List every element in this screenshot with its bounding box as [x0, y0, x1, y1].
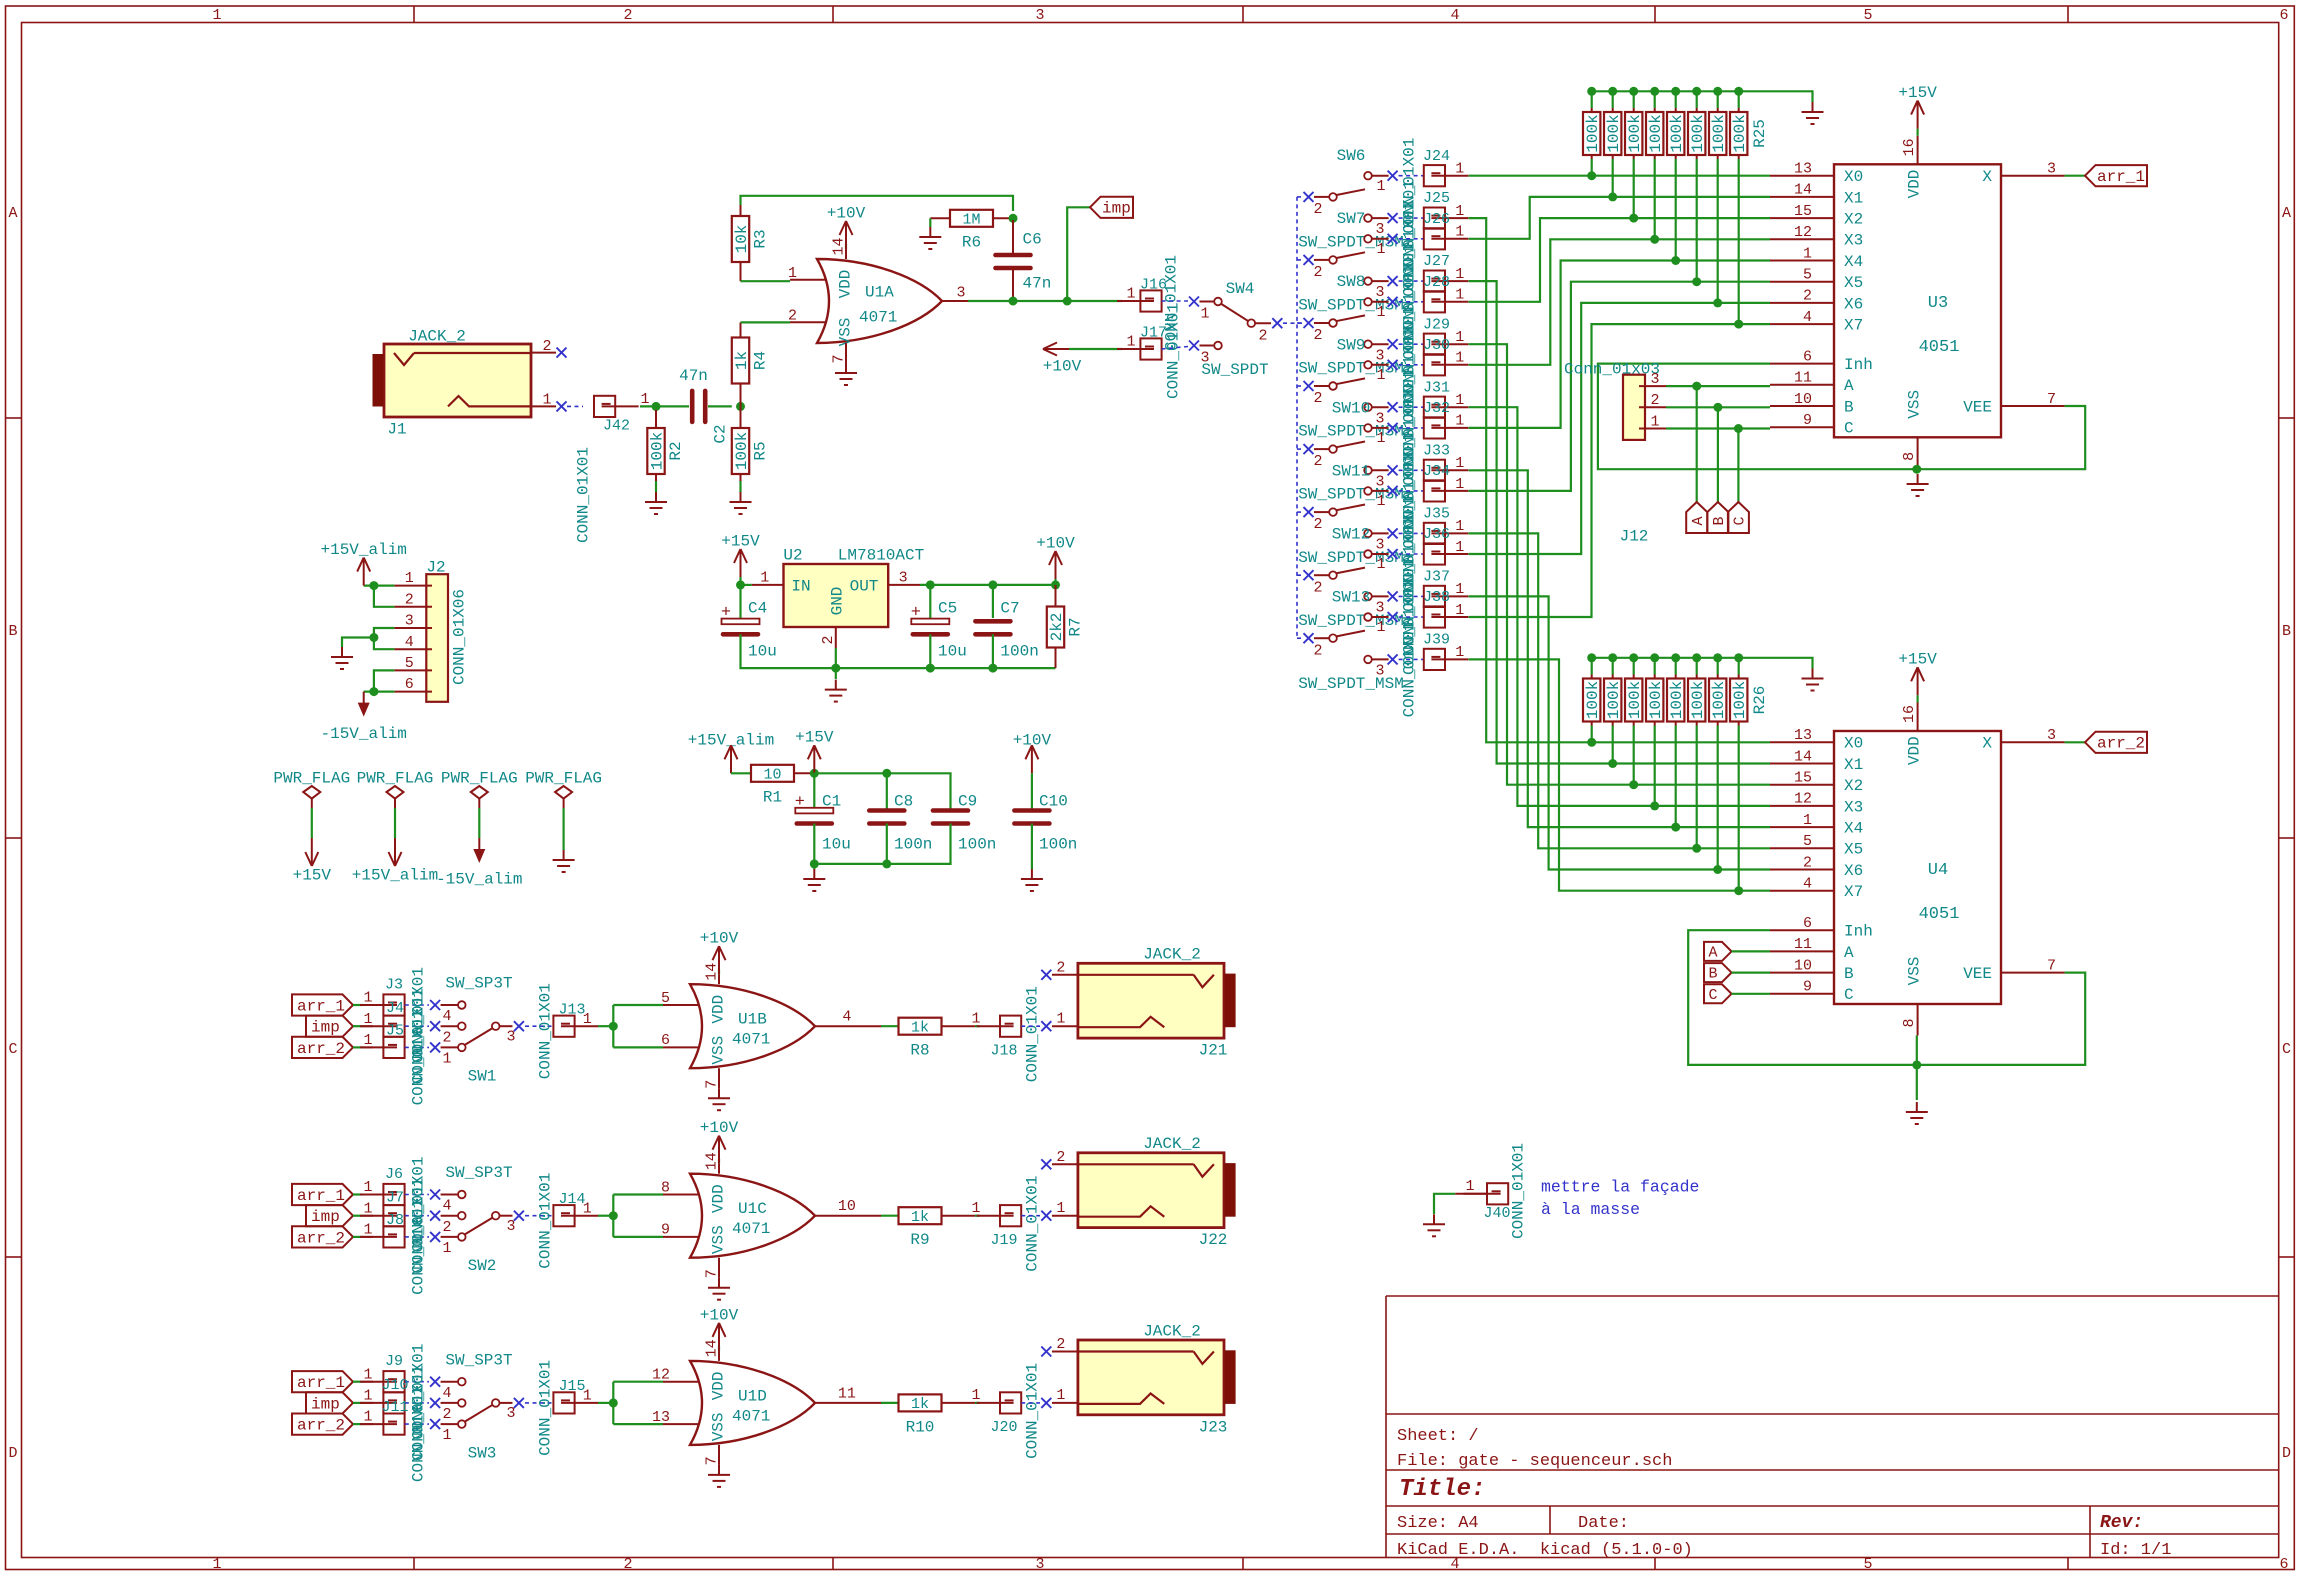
- svg-text:4: 4: [842, 1009, 851, 1026]
- svg-text:A: A: [8, 205, 17, 222]
- svg-text:J11: J11: [381, 1399, 408, 1416]
- svg-text:J13: J13: [558, 1001, 585, 1018]
- svg-text:9: 9: [661, 1222, 670, 1239]
- svg-text:3: 3: [2047, 727, 2056, 744]
- svg-text:File: gate - sequenceur.sch: File: gate - sequenceur.sch: [1397, 1452, 1672, 1471]
- svg-text:J2: J2: [426, 558, 445, 576]
- svg-text:5: 5: [661, 990, 670, 1007]
- svg-text:KiCad E.D.A. kicad (5.1.0-0): KiCad E.D.A. kicad (5.1.0-0): [1397, 1541, 1693, 1560]
- svg-text:100k: 100k: [1605, 114, 1623, 152]
- svg-text:3: 3: [405, 613, 414, 630]
- svg-text:1: 1: [1200, 306, 1209, 323]
- svg-text:J32: J32: [1423, 400, 1450, 417]
- svg-text:C: C: [1708, 987, 1717, 1004]
- svg-text:14: 14: [831, 237, 848, 255]
- svg-text:100n: 100n: [894, 835, 932, 853]
- svg-text:4: 4: [1450, 7, 1459, 24]
- svg-text:C: C: [1844, 420, 1854, 438]
- svg-text:4071: 4071: [732, 1220, 770, 1238]
- svg-text:U2: U2: [783, 546, 802, 564]
- svg-text:1: 1: [583, 1388, 592, 1405]
- svg-text:J27: J27: [1423, 253, 1450, 270]
- svg-text:CONN_01X01: CONN_01X01: [1023, 986, 1041, 1082]
- svg-text:2: 2: [820, 635, 837, 644]
- svg-text:X2: X2: [1844, 211, 1863, 229]
- svg-text:100k: 100k: [1689, 681, 1707, 719]
- svg-text:CONN_01X01: CONN_01X01: [536, 1360, 554, 1456]
- svg-text:14: 14: [704, 963, 721, 981]
- svg-text:13: 13: [652, 1409, 670, 1426]
- svg-text:B: B: [2282, 623, 2291, 640]
- svg-text:+15V_alim: +15V_alim: [320, 541, 406, 559]
- svg-text:+15V: +15V: [795, 729, 834, 747]
- svg-text:4: 4: [442, 1008, 451, 1025]
- svg-text:J9: J9: [385, 1353, 403, 1370]
- svg-text:1: 1: [1376, 493, 1385, 510]
- svg-text:JACK_2: JACK_2: [1143, 946, 1201, 964]
- svg-text:JACK_2: JACK_2: [1143, 1322, 1201, 1340]
- svg-text:11: 11: [1794, 370, 1812, 387]
- svg-text:1: 1: [1455, 329, 1464, 346]
- svg-text:4071: 4071: [859, 308, 897, 326]
- svg-text:imp: imp: [311, 1208, 340, 1226]
- svg-text:100k: 100k: [1731, 114, 1749, 152]
- svg-text:CONN_01X01: CONN_01X01: [409, 1386, 427, 1482]
- svg-text:X: X: [1982, 168, 1992, 186]
- svg-text:2: 2: [1056, 1336, 1065, 1353]
- svg-text:R7: R7: [1066, 617, 1084, 636]
- svg-text:6: 6: [405, 676, 414, 693]
- svg-text:6: 6: [1803, 915, 1812, 932]
- svg-text:1: 1: [1803, 245, 1812, 262]
- svg-text:1: 1: [212, 7, 221, 24]
- svg-text:C8: C8: [894, 792, 913, 810]
- svg-text:X4: X4: [1844, 253, 1863, 271]
- svg-text:3: 3: [506, 1028, 515, 1045]
- svg-text:arr_2: arr_2: [297, 1040, 345, 1058]
- svg-text:B: B: [8, 623, 17, 640]
- svg-text:SW4: SW4: [1226, 280, 1255, 298]
- svg-text:100k: 100k: [1668, 114, 1686, 152]
- svg-text:CONN_01X01: CONN_01X01: [409, 1199, 427, 1295]
- svg-text:3: 3: [956, 284, 965, 301]
- svg-text:VDD: VDD: [709, 1184, 727, 1213]
- svg-text:100k: 100k: [1647, 114, 1665, 152]
- svg-text:1: 1: [788, 265, 797, 282]
- svg-text:10: 10: [838, 1198, 856, 1215]
- svg-text:5: 5: [1803, 267, 1812, 284]
- svg-text:CONN_01X01: CONN_01X01: [409, 1009, 427, 1105]
- svg-text:C4: C4: [748, 599, 767, 617]
- svg-text:VDD: VDD: [709, 1371, 727, 1400]
- svg-text:Sheet: /: Sheet: /: [1397, 1427, 1479, 1446]
- svg-text:J33: J33: [1423, 442, 1450, 459]
- svg-text:4051: 4051: [1919, 905, 1960, 924]
- svg-text:Title:: Title:: [1399, 1476, 1485, 1503]
- svg-text:PWR_FLAG: PWR_FLAG: [441, 769, 518, 787]
- svg-text:A: A: [2282, 205, 2291, 222]
- svg-text:A: A: [1708, 945, 1717, 962]
- svg-text:4: 4: [1803, 876, 1812, 893]
- svg-text:1: 1: [971, 1200, 980, 1217]
- svg-text:R10: R10: [906, 1418, 935, 1436]
- svg-text:3: 3: [1650, 371, 1659, 388]
- svg-text:C: C: [8, 1041, 17, 1058]
- svg-text:+10V: +10V: [700, 1306, 739, 1324]
- svg-text:-15V_alim: -15V_alim: [320, 725, 406, 743]
- svg-text:R3: R3: [751, 229, 769, 248]
- svg-text:C9: C9: [958, 792, 977, 810]
- svg-text:8: 8: [1901, 1018, 1918, 1027]
- svg-text:2: 2: [442, 1029, 451, 1046]
- svg-text:100k: 100k: [1584, 114, 1602, 152]
- svg-text:U3: U3: [1928, 294, 1948, 313]
- svg-text:+15V: +15V: [721, 532, 760, 550]
- svg-text:2: 2: [1650, 392, 1659, 409]
- svg-text:B: B: [1711, 516, 1728, 525]
- svg-text:1: 1: [1650, 413, 1659, 430]
- svg-text:J3: J3: [385, 976, 403, 993]
- svg-text:2: 2: [542, 338, 551, 355]
- svg-text:13: 13: [1794, 161, 1812, 178]
- svg-text:X0: X0: [1844, 168, 1863, 186]
- svg-text:JACK_2: JACK_2: [1143, 1135, 1201, 1153]
- svg-text:X1: X1: [1844, 756, 1863, 774]
- svg-text:arr_2: arr_2: [2097, 735, 2145, 753]
- svg-text:B: B: [1844, 398, 1854, 416]
- svg-text:R9: R9: [910, 1231, 929, 1249]
- svg-text:+10V: +10V: [1036, 534, 1075, 552]
- svg-text:5: 5: [405, 655, 414, 672]
- svg-text:à la masse: à la masse: [1541, 1200, 1640, 1219]
- svg-text:GND: GND: [828, 587, 846, 616]
- svg-text:2: 2: [1056, 959, 1065, 976]
- svg-text:CONN_01X01: CONN_01X01: [1023, 1176, 1041, 1272]
- svg-text:Inh: Inh: [1844, 923, 1873, 941]
- svg-text:SW7: SW7: [1337, 210, 1366, 228]
- svg-text:SW2: SW2: [468, 1257, 497, 1275]
- svg-text:VEE: VEE: [1963, 398, 1992, 416]
- svg-text:5: 5: [1863, 1556, 1872, 1573]
- svg-text:3: 3: [1035, 7, 1044, 24]
- svg-text:J19: J19: [990, 1232, 1017, 1249]
- svg-text:SW9: SW9: [1337, 336, 1366, 354]
- svg-text:100k: 100k: [1731, 681, 1749, 719]
- svg-text:IN: IN: [791, 577, 810, 595]
- svg-text:1: 1: [1126, 285, 1135, 302]
- svg-text:J5: J5: [386, 1022, 404, 1039]
- svg-text:100k: 100k: [1710, 114, 1728, 152]
- svg-text:2: 2: [1803, 288, 1812, 305]
- svg-text:+15V: +15V: [293, 866, 332, 884]
- svg-text:2: 2: [1313, 327, 1322, 344]
- svg-text:C: C: [2282, 1041, 2291, 1058]
- svg-text:1: 1: [1465, 1178, 1474, 1195]
- svg-text:+10V: +10V: [700, 930, 739, 948]
- svg-text:CONN_01X01: CONN_01X01: [574, 447, 592, 543]
- svg-text:B: B: [1844, 965, 1854, 983]
- svg-text:100k: 100k: [648, 432, 666, 470]
- svg-text:12: 12: [1794, 224, 1812, 241]
- svg-text:100n: 100n: [1000, 642, 1038, 660]
- svg-text:2: 2: [1056, 1149, 1065, 1166]
- svg-text:J6: J6: [385, 1166, 403, 1183]
- svg-text:SW_SP3T: SW_SP3T: [445, 1351, 512, 1369]
- svg-text:100k: 100k: [733, 432, 751, 470]
- svg-text:9: 9: [1803, 412, 1812, 429]
- svg-text:Rev:: Rev:: [2100, 1513, 2143, 1533]
- svg-text:16: 16: [1901, 138, 1918, 156]
- svg-text:J38: J38: [1423, 589, 1450, 606]
- svg-text:VDD: VDD: [1905, 170, 1923, 199]
- svg-text:3: 3: [2047, 161, 2056, 178]
- svg-text:1: 1: [1455, 203, 1464, 220]
- svg-text:10: 10: [763, 766, 781, 783]
- svg-text:VSS: VSS: [709, 1412, 727, 1441]
- svg-text:1: 1: [1455, 350, 1464, 367]
- svg-text:1: 1: [1126, 333, 1135, 350]
- svg-text:A: A: [1844, 944, 1854, 962]
- svg-text:9: 9: [1803, 979, 1812, 996]
- svg-text:1: 1: [1376, 556, 1385, 573]
- svg-text:4: 4: [405, 634, 414, 651]
- svg-text:15: 15: [1794, 203, 1812, 220]
- svg-text:10: 10: [1794, 957, 1812, 974]
- svg-text:+: +: [911, 604, 921, 623]
- svg-text:100k: 100k: [1605, 681, 1623, 719]
- svg-text:CONN_01X01: CONN_01X01: [1164, 303, 1182, 399]
- svg-text:1: 1: [1056, 1387, 1065, 1404]
- svg-text:X: X: [1982, 735, 1992, 753]
- svg-text:100k: 100k: [1668, 681, 1686, 719]
- svg-text:1: 1: [1455, 392, 1464, 409]
- svg-text:4: 4: [442, 1385, 451, 1402]
- svg-text:2: 2: [1313, 642, 1322, 659]
- svg-text:arr_1: arr_1: [297, 1187, 345, 1205]
- svg-text:D: D: [8, 1445, 17, 1462]
- svg-text:1: 1: [1455, 161, 1464, 178]
- svg-text:1: 1: [405, 570, 414, 587]
- svg-text:1: 1: [583, 1011, 592, 1028]
- svg-text:2: 2: [1313, 390, 1322, 407]
- svg-text:2: 2: [405, 591, 414, 608]
- svg-text:VDD: VDD: [709, 995, 727, 1024]
- svg-text:1: 1: [1376, 619, 1385, 636]
- svg-text:X7: X7: [1844, 317, 1863, 335]
- svg-text:10u: 10u: [938, 642, 967, 660]
- svg-text:arr_2: arr_2: [297, 1417, 345, 1435]
- svg-text:OUT: OUT: [850, 577, 879, 595]
- svg-text:X6: X6: [1844, 295, 1863, 313]
- svg-text:3: 3: [506, 1218, 515, 1235]
- svg-text:2: 2: [1803, 854, 1812, 871]
- svg-text:SW_SP3T: SW_SP3T: [445, 975, 512, 993]
- svg-text:J21: J21: [1199, 1042, 1228, 1060]
- svg-text:100k: 100k: [1626, 114, 1644, 152]
- svg-text:100n: 100n: [958, 835, 996, 853]
- svg-text:J1: J1: [387, 420, 406, 438]
- svg-text:1: 1: [583, 1200, 592, 1217]
- svg-text:C6: C6: [1023, 230, 1042, 248]
- svg-text:4071: 4071: [732, 1407, 770, 1425]
- svg-text:R6: R6: [962, 234, 981, 252]
- svg-text:1: 1: [971, 1387, 980, 1404]
- svg-text:1: 1: [442, 1427, 451, 1444]
- svg-text:+15V: +15V: [1898, 84, 1937, 102]
- svg-text:J42: J42: [603, 418, 630, 435]
- svg-text:J7: J7: [386, 1190, 404, 1207]
- svg-text:7: 7: [704, 1269, 721, 1278]
- svg-text:VDD: VDD: [836, 270, 854, 299]
- svg-text:R25: R25: [1751, 119, 1769, 148]
- svg-text:R4: R4: [751, 351, 769, 370]
- svg-text:1k: 1k: [911, 1209, 929, 1226]
- svg-text:10: 10: [1794, 391, 1812, 408]
- svg-text:8: 8: [1901, 452, 1918, 461]
- svg-text:14: 14: [1794, 748, 1812, 765]
- svg-text:1: 1: [442, 1051, 451, 1068]
- svg-text:2: 2: [442, 1219, 451, 1236]
- svg-text:1: 1: [1455, 581, 1464, 598]
- svg-text:100k: 100k: [1626, 681, 1644, 719]
- svg-text:16: 16: [1901, 705, 1918, 723]
- svg-text:arr_1: arr_1: [297, 997, 345, 1015]
- svg-text:5: 5: [1863, 7, 1872, 24]
- svg-text:J25: J25: [1423, 190, 1450, 207]
- svg-text:J26: J26: [1423, 211, 1450, 228]
- svg-text:2: 2: [623, 1556, 632, 1573]
- svg-text:Date:: Date:: [1578, 1514, 1629, 1533]
- svg-text:13: 13: [1794, 727, 1812, 744]
- svg-text:J23: J23: [1199, 1418, 1228, 1436]
- svg-text:J4: J4: [386, 1000, 404, 1017]
- svg-text:1: 1: [1455, 476, 1464, 493]
- svg-text:J36: J36: [1423, 526, 1450, 543]
- svg-text:11: 11: [1794, 936, 1812, 953]
- svg-text:100n: 100n: [1039, 835, 1077, 853]
- svg-text:7: 7: [2047, 957, 2056, 974]
- svg-text:14: 14: [704, 1152, 721, 1170]
- svg-text:7: 7: [704, 1456, 721, 1465]
- svg-text:CONN_01X01: CONN_01X01: [1509, 1143, 1527, 1239]
- svg-text:R8: R8: [910, 1042, 929, 1060]
- svg-text:+: +: [795, 793, 805, 812]
- svg-text:CONN_01X06: CONN_01X06: [450, 589, 468, 685]
- svg-text:4: 4: [1803, 309, 1812, 326]
- svg-text:1: 1: [1376, 430, 1385, 447]
- svg-text:imp: imp: [311, 1395, 340, 1413]
- svg-text:1: 1: [1056, 1010, 1065, 1027]
- svg-text:X4: X4: [1844, 820, 1863, 838]
- svg-text:J10: J10: [381, 1377, 408, 1394]
- svg-text:JACK_2: JACK_2: [408, 327, 466, 345]
- svg-text:+: +: [721, 604, 731, 623]
- svg-text:+15V: +15V: [1898, 651, 1937, 669]
- svg-text:4: 4: [442, 1198, 451, 1215]
- svg-text:SW1: SW1: [468, 1068, 497, 1086]
- svg-text:2: 2: [442, 1406, 451, 1423]
- svg-text:LM7810ACT: LM7810ACT: [838, 546, 924, 564]
- svg-text:SW_SPDT: SW_SPDT: [1201, 361, 1268, 379]
- svg-text:VSS: VSS: [836, 318, 854, 347]
- svg-text:1: 1: [1455, 287, 1464, 304]
- svg-text:VDD: VDD: [1905, 736, 1923, 765]
- svg-text:J39: J39: [1423, 632, 1450, 649]
- svg-text:C2: C2: [711, 424, 729, 443]
- svg-text:C: C: [1844, 986, 1854, 1004]
- svg-text:7: 7: [831, 354, 848, 363]
- svg-text:1M: 1M: [962, 211, 980, 228]
- svg-text:J31: J31: [1423, 379, 1450, 396]
- svg-text:10u: 10u: [748, 642, 777, 660]
- svg-text:X3: X3: [1844, 798, 1863, 816]
- svg-text:1: 1: [1376, 241, 1385, 258]
- svg-text:U4: U4: [1928, 861, 1948, 880]
- svg-text:1k: 1k: [911, 1396, 929, 1413]
- svg-text:7: 7: [2047, 391, 2056, 408]
- svg-text:VSS: VSS: [1905, 957, 1923, 986]
- svg-text:X3: X3: [1844, 232, 1863, 250]
- svg-text:SW_SPDT_MSM: SW_SPDT_MSM: [1298, 675, 1404, 693]
- svg-text:14: 14: [704, 1339, 721, 1357]
- svg-text:SW11: SW11: [1332, 462, 1370, 480]
- svg-text:12: 12: [1794, 791, 1812, 808]
- svg-text:U1B: U1B: [738, 1011, 767, 1029]
- svg-text:SW6: SW6: [1337, 147, 1366, 165]
- svg-text:1: 1: [1455, 413, 1464, 430]
- svg-text:+10V: +10V: [827, 204, 866, 222]
- svg-text:10k: 10k: [733, 225, 751, 254]
- svg-text:1: 1: [1803, 812, 1812, 829]
- svg-text:Inh: Inh: [1844, 356, 1873, 374]
- svg-text:arr_1: arr_1: [297, 1374, 345, 1392]
- svg-text:arr_2: arr_2: [297, 1229, 345, 1247]
- svg-text:1: 1: [1455, 539, 1464, 556]
- svg-text:R26: R26: [1751, 686, 1769, 715]
- svg-text:1: 1: [442, 1240, 451, 1257]
- svg-text:2: 2: [788, 308, 797, 325]
- svg-text:12: 12: [652, 1367, 670, 1384]
- svg-text:SW8: SW8: [1337, 273, 1366, 291]
- svg-text:C7: C7: [1000, 599, 1019, 617]
- svg-text:3: 3: [899, 570, 908, 587]
- svg-text:D: D: [2282, 1445, 2291, 1462]
- svg-text:J35: J35: [1423, 506, 1450, 523]
- svg-text:J34: J34: [1423, 463, 1450, 480]
- svg-text:1: 1: [1455, 602, 1464, 619]
- svg-text:47n: 47n: [679, 367, 708, 385]
- svg-text:VSS: VSS: [1905, 390, 1923, 419]
- svg-text:4071: 4071: [732, 1031, 770, 1049]
- svg-text:J37: J37: [1423, 569, 1450, 586]
- svg-text:CONN_01X01: CONN_01X01: [1400, 621, 1418, 717]
- svg-text:C5: C5: [938, 599, 957, 617]
- svg-text:1: 1: [1376, 178, 1385, 195]
- svg-text:J29: J29: [1423, 316, 1450, 333]
- svg-text:X5: X5: [1844, 841, 1863, 859]
- svg-text:2k2: 2k2: [1048, 613, 1066, 642]
- svg-text:J12: J12: [1620, 527, 1649, 545]
- svg-text:A: A: [1690, 516, 1707, 525]
- svg-text:R5: R5: [751, 441, 769, 460]
- svg-text:PWR_FLAG: PWR_FLAG: [273, 769, 350, 787]
- svg-text:PWR_FLAG: PWR_FLAG: [525, 769, 602, 787]
- svg-text:J18: J18: [990, 1042, 1017, 1059]
- svg-text:SW10: SW10: [1332, 399, 1370, 417]
- svg-text:5: 5: [1803, 833, 1812, 850]
- svg-text:SW13: SW13: [1332, 589, 1370, 607]
- svg-text:U1C: U1C: [738, 1200, 767, 1218]
